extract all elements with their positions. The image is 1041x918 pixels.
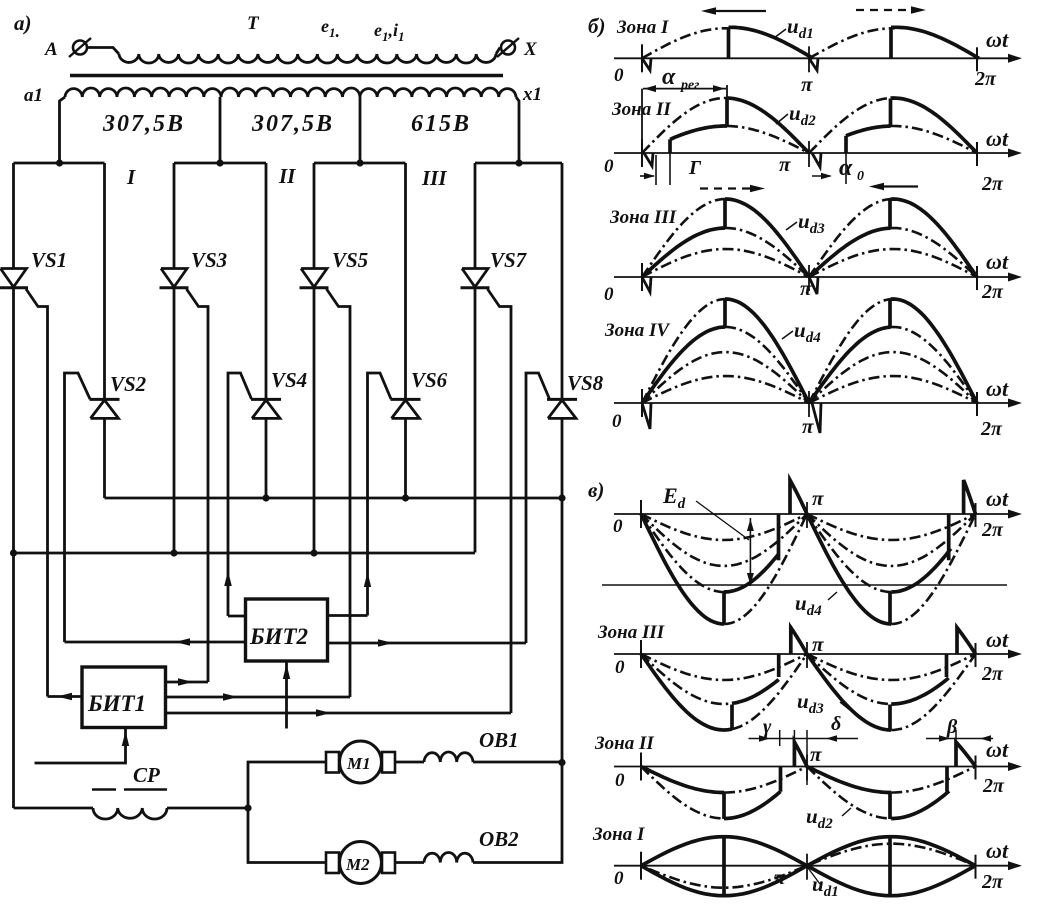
- notch zone IV origin: [642, 403, 651, 429]
- wire VS7 gate: [488, 289, 512, 713]
- wire VS2 anode down: [103, 418, 106, 498]
- curve ud1 dash-dot second half: [809, 28, 895, 58]
- wire secondary left end down: [60, 97, 66, 163]
- svg-text:Х: Х: [523, 39, 538, 60]
- section I top wire: [14, 162, 105, 165]
- svg-text:0: 0: [613, 516, 623, 537]
- bar vud3 delta second: [945, 654, 949, 677]
- curve vud1 dash-dot below first: [649, 867, 803, 888]
- wire BIT1 output left to VS1: [48, 695, 83, 698]
- svg-text:t: t: [1002, 376, 1009, 401]
- svg-text:β: β: [946, 716, 958, 738]
- axis pi tick: [806, 502, 808, 528]
- transformer secondary winding: [65, 88, 516, 97]
- curve ud3 big dash-dot second: [809, 199, 891, 277]
- curve vud1 dash-dot above second: [810, 844, 967, 865]
- bar ud3 first: [723, 199, 727, 228]
- svg-text:ω: ω: [986, 27, 1002, 52]
- node VS3 cathode junction: [170, 549, 177, 556]
- curve vud3 a3 dash-dot second: [891, 654, 975, 730]
- wire A to primary: [87, 48, 119, 55]
- svg-text:Γ: Γ: [688, 157, 702, 179]
- curve ud3 big bold first: [725, 199, 809, 277]
- svg-text:в): в): [588, 478, 604, 502]
- curve ud4 a4 bold first: [725, 299, 809, 403]
- svg-text:t: t: [1002, 838, 1009, 863]
- wire section I left leg upper: [12, 163, 15, 269]
- dimension gamma: [655, 155, 657, 185]
- wire tap2 down: [359, 97, 362, 163]
- bar vud4 delta first: [777, 514, 781, 560]
- curve ud2 big bold second: [891, 98, 978, 153]
- curve vud4 a1 dash-dot first: [641, 514, 807, 540]
- bar vud3 trough second: [888, 705, 892, 730]
- curve vud3 a2 bold rise second: [891, 678, 948, 704]
- leader vud1: [808, 868, 820, 884]
- notch zone III origin: [642, 277, 651, 292]
- curve vud4 a4 bold fall second: [807, 514, 891, 624]
- bar ud3 second: [888, 199, 892, 228]
- wire VS6 gate: [368, 373, 392, 616]
- svg-text:π: π: [779, 152, 791, 176]
- curve vud4 a1 dash-dot second: [807, 514, 976, 540]
- curve ud2 big dash-dot first: [642, 98, 727, 153]
- curve ud1 dash-dot first half: [642, 28, 731, 58]
- svg-text:VS1: VS1: [31, 248, 67, 272]
- svg-text:ω: ω: [986, 737, 1002, 762]
- curve ud2 small bold second: [846, 126, 891, 136]
- curve ud3 mid bold first: [642, 228, 725, 277]
- wire OB2 to right riser: [473, 763, 562, 863]
- svg-text:α: α: [839, 155, 853, 181]
- svg-text:VS6: VS6: [411, 368, 448, 392]
- notch zone I origin: [642, 58, 651, 70]
- bar vud2 trough first: [722, 793, 726, 820]
- wire VS2 gate: [65, 373, 91, 642]
- axis wt: [614, 402, 1014, 404]
- wire VS8 anode down: [561, 418, 564, 762]
- bar vud1 first: [722, 838, 726, 894]
- axis origin tick: [640, 640, 642, 668]
- wire OB1 to right node: [473, 761, 562, 764]
- svg-text:π: π: [810, 742, 822, 766]
- svg-text:VS5: VS5: [332, 248, 368, 272]
- curve vud3 a3 bold fall first: [641, 654, 732, 730]
- wire M2 to OB2: [395, 861, 424, 864]
- svg-text:I: I: [126, 165, 136, 189]
- dimension Ed arrow: [749, 518, 751, 586]
- node VS5 cathode junction: [310, 549, 317, 556]
- svg-text:γ: γ: [763, 716, 772, 738]
- wire BIT2 output right to VS8: [328, 642, 527, 645]
- node secondary-left junction: [56, 159, 63, 166]
- svg-text:δ: δ: [831, 713, 841, 735]
- wire section IV right leg upper: [561, 163, 564, 399]
- axis pi tick: [806, 642, 808, 668]
- svg-text:Зона II: Зона II: [611, 99, 671, 120]
- thyristor VS5: [301, 269, 327, 288]
- wire section III right leg upper: [404, 163, 407, 399]
- wire VS4 anode down: [265, 418, 268, 498]
- curve ud2 small dash-dot first: [727, 126, 809, 153]
- thyristor VS8: [547, 398, 577, 401]
- node motor branch junction: [244, 804, 251, 811]
- curve vud2 a1 dash-dot second: [891, 767, 975, 793]
- arrow zoneII dashed right: [700, 187, 757, 189]
- curve vud4 a3 bold rise second: [891, 549, 951, 592]
- node VS1 cathode junction: [10, 549, 17, 556]
- svg-text:ω: ω: [986, 627, 1002, 652]
- curve ud3 mid dash-dot second: [891, 228, 978, 277]
- arrow to VS5 gate: [223, 693, 238, 701]
- wire section II right leg upper: [265, 163, 268, 399]
- svg-text:а): а): [14, 11, 32, 35]
- axis pi tick: [806, 755, 808, 781]
- leader ud1: [774, 29, 786, 38]
- axis origin tick: [640, 753, 642, 781]
- wire node down to M2 branch: [248, 808, 326, 863]
- svg-text:0: 0: [614, 65, 624, 86]
- wire VS3 cathode down: [173, 288, 176, 553]
- svg-text:t: t: [1002, 737, 1009, 762]
- svg-text:307,5В: 307,5В: [251, 111, 334, 137]
- wire VS4 gate: [228, 373, 252, 616]
- wire BIT1 control input: [35, 728, 126, 764]
- curve vud3 a1 dash-dot first: [641, 654, 807, 680]
- axis origin tick: [640, 852, 642, 880]
- svg-text:2π: 2π: [981, 281, 1004, 303]
- axis 2pi tick: [976, 142, 978, 166]
- svg-text:рег: рег: [680, 78, 699, 93]
- axis wt: [614, 152, 1014, 154]
- curve vud3 a2 dash-dot pre second: [807, 654, 891, 704]
- svg-text:t: t: [1002, 27, 1009, 52]
- thyristor VS2: [90, 398, 120, 401]
- curve ud3 small dash-dot first: [642, 249, 809, 277]
- svg-text:t: t: [1002, 627, 1009, 652]
- svg-text:II: II: [278, 164, 296, 188]
- curve ud3 mid dash-dot first: [725, 228, 809, 277]
- wire section IV left leg upper: [474, 163, 477, 269]
- wire section II left leg upper: [173, 163, 176, 269]
- svg-text:М1: М1: [346, 754, 371, 773]
- svg-text:VS3: VS3: [191, 248, 227, 272]
- bar ud4 first: [723, 299, 727, 327]
- axis 2pi tick: [976, 47, 978, 71]
- svg-text:0: 0: [614, 868, 624, 889]
- wire VS1 cathode down: [12, 288, 15, 553]
- svg-text:Зона III: Зона III: [597, 622, 665, 643]
- cathode bus wire: [14, 552, 476, 555]
- curve ud4 a3 dash-dot first: [725, 327, 809, 403]
- curve vud2 a2 dash-dot pre second: [807, 767, 891, 819]
- reactor core bars: [92, 788, 116, 791]
- spike vud2 first: [794, 742, 807, 767]
- curve vud2 a1 bold fall second: [807, 767, 891, 793]
- svg-text:б): б): [588, 14, 605, 38]
- wire VS5 cathode down: [313, 288, 316, 553]
- arrow zoneII solid left: [874, 185, 918, 187]
- spike vud4 first: [790, 480, 807, 514]
- curve ud4 a1 dash-dot second: [809, 376, 977, 403]
- bar vud2 trough second: [888, 793, 892, 820]
- bar ud4 second: [888, 299, 892, 327]
- leader ud3: [786, 222, 797, 230]
- terminal A: [73, 41, 87, 55]
- svg-text:2π: 2π: [981, 519, 1004, 541]
- bar vud4 trough second: [888, 592, 892, 624]
- wire VS5 gate: [327, 289, 351, 697]
- curve vud4 a4 dash-dot second: [891, 514, 975, 624]
- thyristor VS3: [161, 269, 187, 288]
- axis wt: [614, 653, 1014, 655]
- dimension gamma delta row: [749, 738, 859, 740]
- wire VS7 cathode down: [474, 288, 477, 553]
- axis 2pi tick: [976, 392, 978, 416]
- bar vud2 delta first: [779, 767, 783, 792]
- wire VS6 anode down: [404, 418, 407, 498]
- axis origin tick: [640, 500, 642, 528]
- curve vud3 a2 dash-dot pre first: [641, 654, 732, 704]
- curve vud3 a1 dash-dot second: [807, 654, 976, 680]
- terminal X: [501, 41, 515, 55]
- spike vud3 second: [957, 628, 976, 655]
- block BIT2: [246, 599, 328, 661]
- axis wt: [614, 57, 1014, 59]
- curve vud4 a3 bold rise first: [724, 554, 779, 592]
- svg-text:π: π: [812, 486, 824, 510]
- thyristor VS1: [1, 269, 27, 288]
- svg-text:2π: 2π: [982, 775, 1005, 797]
- arrow into BIT2: [283, 664, 290, 679]
- svg-text:ω: ω: [986, 838, 1002, 863]
- svg-text:2π: 2π: [980, 418, 1003, 440]
- node tap2 junction: [356, 159, 363, 166]
- svg-text:t: t: [1002, 126, 1009, 151]
- node VS8 anode junction: [558, 494, 565, 501]
- arrow to VS3 gate: [178, 678, 193, 686]
- curve ud4 a2 dash-dot first: [642, 352, 809, 403]
- bar ud1 first: [727, 27, 731, 58]
- bar vud4 trough first: [722, 592, 726, 624]
- leader vud4: [828, 592, 837, 600]
- wire M1 to OB1: [395, 761, 424, 764]
- curve ud2 small bold first: [670, 126, 727, 139]
- curve vud4 a4 bold fall first: [641, 514, 724, 624]
- svg-text:БИТ2: БИТ2: [249, 624, 308, 649]
- wire cathode bus to bottom: [12, 553, 15, 808]
- axis pi tick: [808, 265, 810, 291]
- svg-text:VS8: VS8: [567, 371, 604, 395]
- dimension alpha_reg: [641, 89, 643, 153]
- axis pi tick: [808, 46, 810, 72]
- arrow regulation right dashed: [856, 9, 918, 11]
- svg-text:Т: Т: [247, 13, 260, 34]
- curve ud4 a4 bold second: [891, 299, 978, 403]
- svg-text:А: А: [44, 39, 58, 60]
- svg-text:307,5В: 307,5В: [102, 111, 185, 137]
- curve vud2 a2 bold rise second: [891, 791, 949, 818]
- curve vud3 a3 bold fall second: [807, 654, 891, 730]
- svg-text:ω: ω: [986, 249, 1002, 274]
- curve ud2 big bold first: [727, 98, 809, 153]
- notch zone III pi: [809, 277, 818, 294]
- section IV top wire: [475, 162, 562, 165]
- notch zone II origin: [644, 153, 653, 166]
- arrow VS6 gate up: [364, 572, 371, 587]
- notch zone I pi: [809, 58, 818, 70]
- wire VS1 gate: [26, 289, 48, 697]
- field winding OB1: [424, 752, 473, 762]
- anode bus wire: [105, 497, 563, 500]
- axis 2pi tick: [975, 503, 977, 527]
- curve vud4 a3 dash-dot fall first: [641, 514, 724, 592]
- curve ud3 mid bold second: [809, 228, 891, 277]
- leader vud2: [842, 808, 851, 816]
- notch zone IV pi: [812, 403, 821, 433]
- bar vud2 delta second: [945, 767, 949, 792]
- wire section I right leg upper: [103, 163, 106, 399]
- gamma step second: [844, 136, 848, 153]
- svg-text:а1: а1: [24, 85, 43, 106]
- curve ud3 small dash-dot second: [809, 249, 977, 277]
- svg-text:ω: ω: [986, 376, 1002, 401]
- wire VS3 gate: [187, 289, 209, 682]
- node right motor junction: [558, 759, 565, 766]
- curve ud4 a1 dash-dot first: [642, 376, 809, 403]
- bar vud3 trough first: [730, 705, 734, 730]
- svg-text:0: 0: [604, 284, 614, 305]
- section II top wire: [174, 162, 266, 165]
- bar vud1 second: [888, 838, 892, 894]
- bar vud3 delta first: [777, 654, 781, 677]
- spike vud3 first: [791, 628, 807, 655]
- curve vud4 a4 dash-dot first: [724, 514, 807, 624]
- svg-text:t: t: [1002, 249, 1009, 274]
- gamma step first: [668, 139, 672, 153]
- wire tap1 down: [219, 97, 222, 163]
- wire BIT2 output left to VS2: [65, 641, 246, 644]
- leader ud4: [782, 331, 793, 339]
- curve vud4 a2 dash-dot second: [807, 514, 976, 566]
- axis 2pi tick: [976, 266, 978, 290]
- curve vud1 upper bold first: [641, 837, 807, 866]
- svg-text:0: 0: [604, 156, 614, 177]
- svg-text:0: 0: [612, 411, 622, 432]
- motor M2: [326, 853, 339, 874]
- curve vud4 a3 dash-dot fall second: [807, 514, 891, 592]
- svg-text:ОВ1: ОВ1: [479, 728, 519, 752]
- svg-text:π: π: [802, 414, 814, 438]
- curve vud2 a1 dash-dot first: [724, 767, 807, 793]
- node x1 junction: [515, 159, 522, 166]
- axis origin tick: [641, 44, 643, 72]
- wire bottom left horizontal: [14, 807, 94, 810]
- wire secondary right end down: [516, 97, 519, 163]
- transformer core: [70, 74, 503, 77]
- svg-text:Зона IV: Зона IV: [604, 320, 670, 341]
- node VS6 anode junction: [402, 494, 409, 501]
- curve vud2 a1 bold fall first: [641, 767, 724, 793]
- axis pi tick: [808, 141, 810, 167]
- leader vud3: [840, 702, 850, 710]
- arrow to VS8 gate: [378, 639, 393, 647]
- curve ud4 a2 dash-dot second: [809, 352, 977, 403]
- axis origin tick: [641, 389, 643, 417]
- block BIT1: [82, 667, 166, 728]
- curve ud1 bold second half: [891, 27, 979, 58]
- axis pi tick: [808, 391, 810, 417]
- curve vud2 a2 bold rise first: [724, 792, 781, 819]
- axis origin tick: [641, 139, 643, 167]
- axis wt: [614, 513, 1014, 515]
- wire node up to M1 branch: [248, 762, 326, 808]
- dimension beta row: [926, 738, 993, 740]
- svg-text:0: 0: [857, 169, 864, 184]
- wire section III left leg upper: [313, 163, 316, 269]
- svg-text:615В: 615В: [411, 111, 471, 137]
- curve vud2 a2 dash-dot pre first: [641, 767, 724, 819]
- dimension alpha0: [812, 175, 830, 177]
- wire VS8 gate: [526, 373, 550, 643]
- bar vud4 delta second: [947, 514, 951, 560]
- curve vud4 a2 dash-dot first: [641, 514, 807, 566]
- section III top wire: [314, 162, 406, 165]
- svg-text:Зона II: Зона II: [594, 733, 654, 754]
- axis wt: [614, 766, 1014, 768]
- spike vud4 second: [964, 480, 976, 514]
- bar ud2 first: [725, 98, 729, 126]
- axis wt: [614, 865, 1014, 867]
- curve ud2 big dash-dot second: [809, 98, 893, 153]
- svg-text:III: III: [421, 166, 447, 190]
- axis origin tick: [641, 263, 643, 291]
- transformer T primary winding: [119, 54, 496, 63]
- svg-text:х1: х1: [522, 84, 542, 105]
- svg-text:2π: 2π: [981, 871, 1004, 893]
- svg-text:0: 0: [615, 770, 625, 791]
- arrow into BIT1: [122, 731, 129, 746]
- wire BIT1 output to VS5: [166, 696, 351, 699]
- wire BIT2 output short to VS6: [328, 614, 368, 617]
- thyristor VS4: [251, 398, 281, 401]
- svg-text:ω: ω: [986, 486, 1002, 511]
- axis 2pi tick: [975, 643, 977, 667]
- curve ud1 bold first half: [729, 27, 814, 58]
- arrow VS4 gate up: [224, 571, 232, 586]
- leader ud2: [776, 114, 788, 124]
- curve ud3 big bold second: [891, 199, 978, 277]
- curve ud4 a3 bold second: [809, 327, 891, 403]
- svg-text:VS2: VS2: [110, 372, 147, 396]
- spike vud2 second: [956, 742, 976, 767]
- smoothing reactor SR: [93, 808, 167, 819]
- field winding OB2: [424, 852, 473, 862]
- wire BIT1 output to VS3: [166, 681, 209, 684]
- curve vud1 upper bold second: [807, 837, 976, 866]
- axis pi tick: [806, 854, 808, 880]
- curve ud4 a3 dash-dot second: [891, 327, 978, 403]
- svg-text:Зона I: Зона I: [592, 824, 645, 845]
- svg-text:БИТ1: БИТ1: [87, 691, 146, 716]
- node VS4 anode junction: [262, 494, 269, 501]
- axis 2pi tick: [975, 756, 977, 780]
- svg-text:Зона I: Зона I: [616, 17, 669, 38]
- svg-text:М2: М2: [345, 855, 370, 874]
- leader Ed: [696, 501, 749, 540]
- notch zone II pi: [812, 153, 821, 167]
- svg-text:2π: 2π: [981, 663, 1004, 685]
